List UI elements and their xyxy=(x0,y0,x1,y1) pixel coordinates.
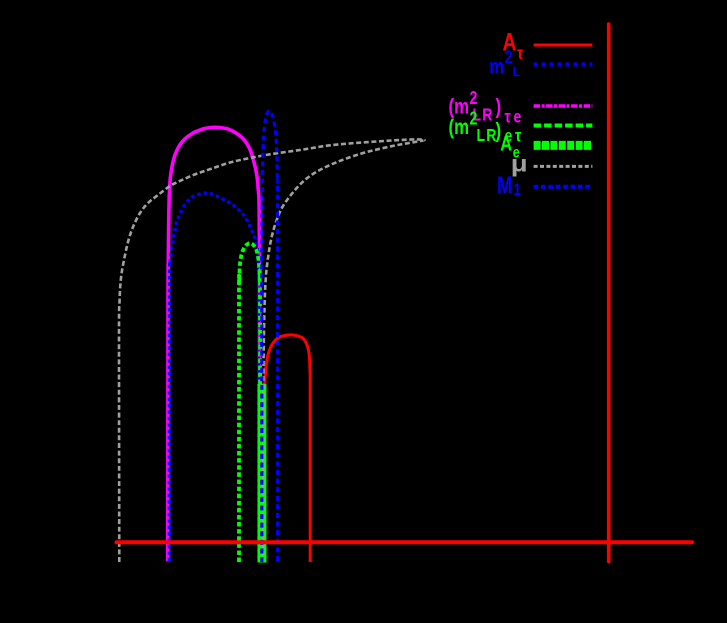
curve A_tau red peak xyxy=(265,335,310,562)
svg-text:L: L xyxy=(513,64,520,80)
legend label m2_L xyxy=(489,47,519,80)
legend label M_1 xyxy=(497,172,521,200)
legend label m2_LR_etau xyxy=(449,109,525,146)
legend sample M_1 blue dashed xyxy=(534,185,593,189)
svg-text:2: 2 xyxy=(505,47,513,68)
svg-text:μ: μ xyxy=(511,151,528,176)
red horizontal axis line xyxy=(117,540,693,544)
svg-text:τ: τ xyxy=(517,43,523,63)
legend sample m2_LR_taue magenta dash-dot xyxy=(534,104,593,108)
svg-text:1: 1 xyxy=(514,181,522,200)
legend label A_tau xyxy=(503,28,524,63)
legend sample A_tau red solid xyxy=(534,44,593,47)
legend label A_e xyxy=(500,131,519,162)
curve m2_LR_taue magenta dome xyxy=(168,127,260,561)
legend sample A_e green squares xyxy=(534,141,593,150)
legend sample mu gray dotted xyxy=(534,165,593,168)
curve m2_LR_etau green dashed peak xyxy=(239,243,260,562)
legend sample m2_L blue dotted xyxy=(534,63,593,67)
svg-text:m: m xyxy=(489,55,504,78)
legend sample m2_LR_etau green dashed xyxy=(534,124,593,128)
svg-text:): ) xyxy=(496,96,502,119)
legend label m2_LR_taue xyxy=(449,88,525,127)
svg-text:(m: (m xyxy=(449,116,469,139)
curve m2_L blue dotted dome xyxy=(169,193,258,561)
curve A_e green bar xyxy=(258,384,267,563)
svg-text:M: M xyxy=(497,172,513,199)
curve M_1 blue dashed narrow peak xyxy=(262,111,278,562)
red vertical axis line xyxy=(607,24,611,562)
svg-text:τe: τe xyxy=(505,107,525,127)
curve mu gray dashed hairpin xyxy=(119,139,425,562)
legend label mu xyxy=(511,151,528,176)
svg-text:LR: LR xyxy=(477,125,498,145)
